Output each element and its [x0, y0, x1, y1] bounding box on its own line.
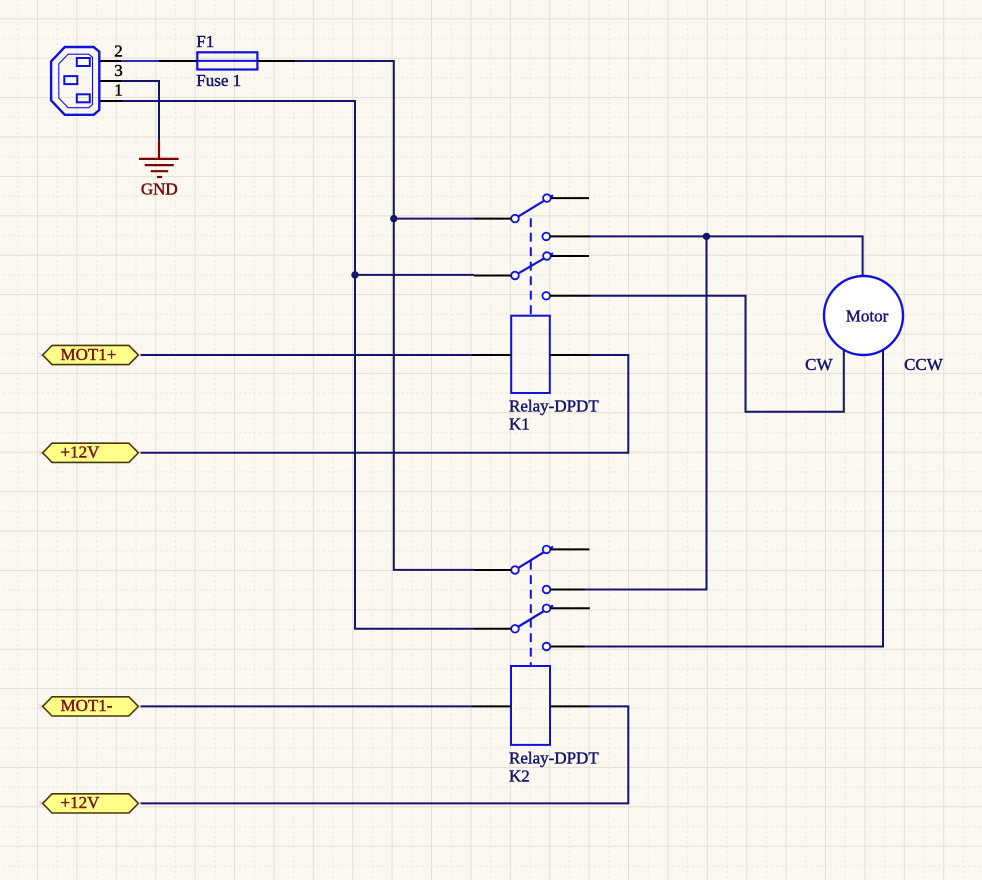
port anchor mark	[39, 704, 43, 708]
port MOT1-	[43, 697, 139, 716]
svg-text:3: 3	[114, 61, 123, 80]
svg-text:Motor: Motor	[846, 307, 889, 326]
relay K2 switch A NC stub	[551, 548, 590, 550]
wire: junction to K1 SW1 pole	[394, 218, 474, 220]
svg-text:+12V: +12V	[61, 443, 101, 462]
svg-text:F1: F1	[196, 32, 214, 51]
AC inlet connector body	[51, 47, 99, 115]
relay K1 switch B throw NO	[542, 292, 550, 300]
svg-text:CCW: CCW	[904, 355, 944, 374]
AC inlet connector inner outline	[59, 54, 93, 107]
wire: MOT1+ port to K1 coil	[141, 354, 472, 356]
wire: K1 SW1 throw to motor top	[590, 236, 863, 276]
relay K2 switch A pole contact	[511, 566, 519, 574]
relay K2 switch A throw NO	[543, 586, 551, 594]
svg-text:+12V: +12V	[61, 793, 101, 812]
port anchor mark	[39, 801, 43, 805]
relay K2 coil left pin	[472, 705, 511, 707]
ground symbol GND	[139, 141, 179, 177]
svg-text:Fuse 1: Fuse 1	[196, 71, 241, 90]
relay K1 switch B throw NC	[543, 252, 551, 260]
fuse F1 left pin	[159, 60, 198, 62]
relay K2 switch B arm	[517, 606, 553, 628]
relay K1 switch A arm	[517, 195, 553, 217]
relay K2 coil body	[511, 666, 550, 745]
wire: K2 coil right to +12V port	[141, 706, 629, 803]
svg-text:MOT1-: MOT1-	[61, 696, 113, 715]
relay K1 coil right pin	[550, 354, 590, 356]
relay K1 switch B pole contact	[511, 272, 519, 280]
port anchor mark	[39, 451, 43, 455]
wire: pin3 down to GND	[121, 81, 159, 141]
connector pin 3	[99, 80, 121, 82]
wire: fuse output to K1 SW1 pole and down to K2 SW1 pole	[296, 61, 474, 570]
relay K1 switch B NO pin	[550, 295, 590, 297]
junction node pin1/K1 SW2	[351, 271, 358, 278]
relay K2 switch B NO pin	[551, 646, 586, 648]
svg-text:Relay-DPDT: Relay-DPDT	[509, 397, 599, 416]
AC inlet prong pin1	[77, 94, 90, 102]
relay K2 switch A NO pin	[551, 589, 586, 591]
svg-text:CW: CW	[805, 355, 833, 374]
relay K2 coil right pin	[550, 705, 590, 707]
junction node motor top / K2 SW1	[703, 233, 710, 240]
wire: pin2 to fuse	[121, 60, 159, 62]
relay K1 switch A NC stub	[551, 197, 589, 199]
AC inlet prong pin2	[77, 58, 90, 66]
port +12V (bottom)	[43, 794, 139, 813]
relay K1 switch A throw NC	[543, 194, 551, 202]
relay K2 switch A throw NC	[543, 546, 551, 554]
relay K1 switch A pole pin	[474, 218, 511, 220]
wire: vertical to K2 SW1 throw	[585, 236, 706, 589]
relay K1 coil left pin	[472, 354, 512, 356]
port +12V (top)	[43, 443, 139, 462]
svg-text:K2: K2	[509, 767, 530, 786]
fuse F1 right pin	[257, 60, 295, 62]
fuse F1 middle line	[197, 60, 257, 62]
relay K2 switch A pole pin	[474, 569, 511, 571]
relay K2 switch B NC stub	[551, 607, 590, 609]
relay K1 actuator dashed link	[530, 218, 532, 315]
wire: junction to K1 SW2 pole	[355, 274, 474, 276]
wire: MOT1- port to K2 coil	[141, 705, 472, 707]
relay K1 switch B arm	[517, 253, 553, 274]
wire: K1 SW2 throw to motor CW pin	[590, 296, 844, 412]
relay K2 switch A arm	[517, 547, 553, 569]
svg-text:GND: GND	[141, 179, 178, 198]
wire: K1 coil right to +12V port	[141, 355, 629, 453]
connector pin 2	[99, 60, 121, 62]
relay K1 switch B pole pin	[474, 275, 511, 277]
port anchor mark	[39, 353, 43, 357]
svg-text:1: 1	[114, 81, 123, 100]
port MOT1+	[43, 345, 139, 364]
AC inlet prong pin3	[64, 76, 77, 84]
svg-text:2: 2	[114, 42, 123, 61]
relay K2 switch B throw NC	[543, 605, 551, 613]
relay K1 switch A pole contact	[511, 215, 519, 223]
svg-text:Relay-DPDT: Relay-DPDT	[509, 749, 599, 768]
svg-text:MOT1+: MOT1+	[61, 345, 117, 364]
connector pin 1	[99, 100, 123, 102]
relay K1 coil body	[511, 316, 550, 393]
relay K1 switch A NO pin	[550, 235, 590, 237]
svg-text:K1: K1	[509, 415, 530, 434]
relay K2 actuator dashed link	[530, 561, 532, 666]
relay K2 switch B pole pin	[474, 628, 511, 630]
relay K2 switch B pole contact	[511, 625, 519, 633]
wire: motor CCW pin to K2 SW2 throw	[585, 350, 883, 647]
relay K1 switch B NC stub	[551, 255, 589, 257]
junction node fuse/K1 SW1	[390, 215, 397, 222]
relay K2 switch B throw NO	[543, 643, 551, 651]
wire: pin1 down to K2 SW2 pole	[123, 101, 474, 629]
relay K1 switch A throw NO	[542, 233, 550, 241]
motor M1 body	[824, 276, 903, 355]
fuse F1 body	[197, 52, 257, 69]
